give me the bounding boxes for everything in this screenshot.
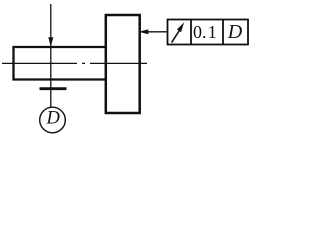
small cylinder (shaft body): [14, 47, 106, 80]
runout symbol arrowhead: [177, 22, 184, 32]
centerline (dash-dot axis): [2, 62, 147, 64]
svg-text:D: D: [46, 109, 61, 129]
frame divider 1: [190, 20, 192, 45]
leader arrowhead (left, at flange surface): [139, 29, 149, 34]
large cylinder (flange): [106, 15, 140, 113]
circular runout symbol (slanted arrow): [172, 30, 180, 43]
datum circle: [40, 107, 66, 133]
dimension arrowhead (down, at shaft top): [48, 37, 53, 47]
dimension line (vertical, through shaft to datum): [50, 4, 52, 108]
datum bar: [40, 87, 67, 90]
leader line to flange: [140, 31, 169, 33]
frame divider 2: [222, 20, 224, 45]
feature control frame: [168, 20, 249, 45]
svg-text:D: D: [227, 21, 243, 43]
svg-text:0.: 0.: [193, 22, 207, 42]
svg-text:1: 1: [208, 22, 217, 42]
